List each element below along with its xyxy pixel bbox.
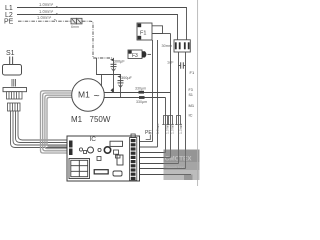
capacitor 1uF <box>167 61 186 69</box>
watermark block bottom right <box>164 150 200 181</box>
IC fuse bar <box>94 170 108 174</box>
svg-text:1.0mm²: 1.0mm² <box>37 15 52 20</box>
svg-text:PE: PE <box>145 130 152 136</box>
svg-text:6mm: 6mm <box>71 25 79 29</box>
wire IC output 7 <box>140 174 192 176</box>
svg-text:M1: M1 <box>189 103 195 108</box>
capacitor C2 branch <box>97 58 133 98</box>
svg-text:330μm: 330μm <box>135 86 146 90</box>
wire L2 <box>17 15 178 40</box>
page edge line right <box>197 0 199 186</box>
IC vertical relay <box>116 155 121 158</box>
watermark overlay <box>164 150 200 181</box>
plug S1 stem hatch <box>11 79 13 87</box>
svg-text:1.0mm: 1.0mm <box>170 123 174 134</box>
IC left connector blocks <box>69 141 73 148</box>
ferrite 6mm on PE wire <box>71 18 82 29</box>
rotated gauge labels <box>156 123 183 134</box>
IC bold ring e <box>104 147 110 153</box>
socket hatch box 1 <box>7 92 23 99</box>
motor wire upper <box>104 92 171 94</box>
svg-text:1.0mm²: 1.0mm² <box>39 2 54 7</box>
wire IC output 3 <box>140 152 166 154</box>
svg-text:300μF: 300μF <box>114 59 126 63</box>
connector staple 2 <box>167 116 173 125</box>
svg-text:1.0mm²: 1.0mm² <box>39 9 54 14</box>
IC top rect <box>110 141 123 146</box>
svg-text:1.0mm: 1.0mm <box>179 123 183 134</box>
wire IC output 2 <box>140 146 158 148</box>
wire motor lower terminal down to IC <box>165 98 167 153</box>
breaker F1 <box>137 23 152 40</box>
svg-text:F1: F1 <box>190 70 195 75</box>
wire mains a down to IC <box>178 116 180 164</box>
IC small circle d <box>98 148 101 151</box>
IC control box <box>67 136 140 181</box>
wires through block down <box>178 52 180 116</box>
motor wire lower <box>104 97 166 99</box>
IC ring c <box>88 147 94 153</box>
motor M1 circle <box>72 79 105 112</box>
svg-text:750W: 750W <box>90 115 111 124</box>
socket hatch box 2 <box>8 103 21 111</box>
plug S1 prongs <box>9 57 11 66</box>
wire F1 pin b down to IC <box>157 40 159 147</box>
svg-text:S1: S1 <box>189 93 193 97</box>
wire F1 sense down to IC <box>170 34 172 158</box>
svg-text:1.0mm: 1.0mm <box>165 123 169 134</box>
wire IC output 6 <box>140 168 186 170</box>
svg-text:M1: M1 <box>78 90 90 100</box>
F1 stubs and U link <box>152 26 163 34</box>
svg-text:F3: F3 <box>189 88 193 92</box>
wire IC output 1 (PE) <box>140 141 153 143</box>
IC transformer grid <box>69 159 90 179</box>
IC small circle a <box>79 148 82 151</box>
svg-text:IC: IC <box>90 136 97 143</box>
IC small square g <box>97 157 101 161</box>
svg-text:F1: F1 <box>140 31 146 37</box>
svg-text:PE: PE <box>4 19 14 26</box>
svg-text:M1: M1 <box>71 115 83 124</box>
connector staple 1 <box>162 116 168 125</box>
wire F1 pin a down to IC <box>152 40 154 142</box>
wire IC output 4 <box>140 157 171 159</box>
socket plate <box>3 88 27 92</box>
svg-text:330μm: 330μm <box>136 100 147 104</box>
wire PE dash-dot <box>18 20 71 22</box>
IC terminal strip <box>130 134 137 181</box>
svg-text:~: ~ <box>94 90 100 102</box>
svg-text:IC: IC <box>189 113 193 118</box>
terminal block top right <box>162 40 191 52</box>
wire IC output 5 <box>140 163 179 165</box>
switch F3 <box>128 50 151 59</box>
IC small rect f <box>114 150 119 154</box>
cable from S1 (4 wires) down and right to IC <box>11 111 67 148</box>
gray bundle motor to IC <box>41 91 72 153</box>
svg-text:F3: F3 <box>132 53 138 59</box>
wire from U down via x=170 <box>163 33 171 35</box>
svg-text:1.0mm: 1.0mm <box>156 123 160 134</box>
plug S1 body <box>3 65 22 76</box>
IC small square b <box>84 151 87 154</box>
svg-text:S1: S1 <box>6 50 15 57</box>
capacitor C1 branch <box>110 58 125 93</box>
connector staple 3 <box>175 116 181 125</box>
svg-text:300μF: 300μF <box>121 76 133 80</box>
wire L1 <box>17 8 187 40</box>
IC rounded connector <box>113 171 122 176</box>
